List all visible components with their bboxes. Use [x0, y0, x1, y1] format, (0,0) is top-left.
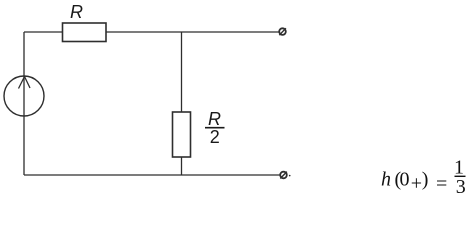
svg-text:R: R	[208, 109, 221, 129]
wire left vertical through source	[23, 32, 25, 175]
label R/2 fraction bar	[205, 127, 225, 129]
wire top-right: resistor R to terminal	[106, 31, 279, 33]
formula h(0+)=1/3	[381, 157, 466, 199]
svg-text:=: =	[436, 173, 447, 195]
terminal top	[279, 28, 286, 35]
wire middle lower	[181, 157, 183, 175]
svg-text:2: 2	[210, 127, 220, 147]
wire bottom	[24, 174, 281, 176]
terminal bottom	[280, 172, 290, 179]
svg-text:R: R	[70, 2, 83, 22]
resistor R2 body (R/2)	[173, 112, 191, 157]
svg-text:+: +	[411, 172, 422, 194]
svg-text:): )	[422, 169, 429, 191]
svg-text:3: 3	[456, 176, 466, 198]
resistor R1 body	[63, 23, 107, 42]
svg-text:h: h	[381, 169, 391, 191]
svg-text:0: 0	[400, 169, 410, 191]
current source I1 circle	[4, 76, 44, 116]
current source I1 arrow	[19, 77, 31, 89]
wire middle upper	[181, 32, 183, 112]
wire top-left: node A to resistor R	[24, 31, 63, 33]
